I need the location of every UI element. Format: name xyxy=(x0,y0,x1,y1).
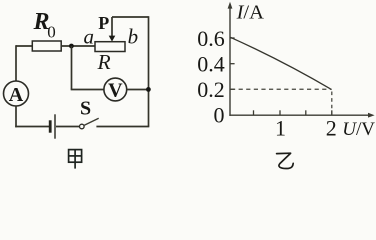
svg-text:0.4: 0.4 xyxy=(197,51,225,76)
svg-text:0.2: 0.2 xyxy=(197,77,225,102)
svg-text:U/V: U/V xyxy=(342,119,375,140)
y tick 0.4 xyxy=(230,63,235,65)
rheostat slider arrow xyxy=(111,17,113,37)
svg-text:0.6: 0.6 xyxy=(197,26,225,51)
switch S: lever xyxy=(84,118,99,125)
wire: battery to switch xyxy=(56,126,79,128)
graph y-axis xyxy=(229,6,231,116)
switch S: pivot circle xyxy=(80,124,85,129)
battery: long thin plate (positive) xyxy=(54,114,56,138)
wire: voltmeter branch horizontal to V xyxy=(71,89,104,91)
x tick 1.5 xyxy=(305,110,307,115)
dashed line at U=2 xyxy=(331,92,333,115)
wire: V to right rail xyxy=(127,89,149,91)
dashed line at I=0.2 xyxy=(231,88,331,90)
x tick 1 xyxy=(279,110,281,115)
resistor R0 (box) xyxy=(32,41,61,51)
node junction dot after R0 xyxy=(69,44,74,49)
voltmeter V xyxy=(104,78,127,101)
svg-text:P: P xyxy=(98,13,109,33)
ammeter A xyxy=(4,81,29,106)
wire: top-left from left rail to R0 xyxy=(16,45,32,47)
battery: short thick plate (negative) xyxy=(49,120,52,132)
y tick 0.6 xyxy=(230,37,235,39)
svg-text:S: S xyxy=(80,97,91,119)
wire: bottom rail to battery xyxy=(15,126,49,128)
svg-text:a: a xyxy=(84,24,95,48)
wire: left rail vertical (top wire corner down to ammeter) xyxy=(15,45,17,81)
y tick 0.2 xyxy=(230,88,235,90)
svg-text:1: 1 xyxy=(275,115,286,140)
node junction dot on right rail xyxy=(146,87,151,92)
svg-text:I/A: I/A xyxy=(236,1,265,23)
wire: switch to right rail xyxy=(96,126,149,128)
x tick 2 xyxy=(331,110,333,115)
svg-text:R: R xyxy=(97,50,111,74)
label 甲 (drawn glyph) xyxy=(69,150,82,169)
svg-text:A: A xyxy=(9,84,24,106)
wire: R0 to rheostat terminal a xyxy=(61,45,95,47)
rheostat R (box) xyxy=(95,42,125,52)
label 乙 (drawn glyph) xyxy=(277,153,294,168)
svg-text:0: 0 xyxy=(214,102,225,127)
wire: slider up and across to right rail xyxy=(112,16,149,18)
graph x-axis xyxy=(229,114,370,116)
svg-text:V: V xyxy=(108,80,123,102)
svg-text:0: 0 xyxy=(47,23,56,42)
wire: ammeter down to bottom rail xyxy=(15,106,17,127)
wire: right rail vertical xyxy=(148,16,150,126)
x tick 0.5 xyxy=(253,110,255,115)
svg-text:2: 2 xyxy=(326,115,337,140)
I-U line xyxy=(230,37,331,89)
wire: voltmeter branch vertical from node xyxy=(71,46,73,90)
svg-text:b: b xyxy=(128,24,139,48)
